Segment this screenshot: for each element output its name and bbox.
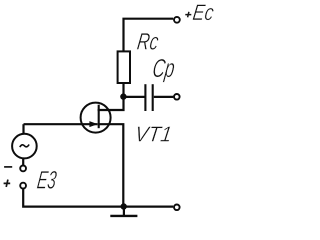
label Cp (151, 53, 177, 83)
node: drain junction dot (120, 93, 126, 99)
node: bottom junction dot (121, 203, 127, 209)
resistor Rc (118, 51, 130, 83)
transistor VT1 body circle (81, 103, 111, 133)
wire: Rc bottom to drain node (122, 83, 124, 97)
ground stub (123, 207, 125, 215)
ground bar (110, 215, 137, 217)
label +Ec (185, 0, 216, 25)
wire: gate lead from left corner to VT1 (24, 123, 98, 125)
svg-text:Ec: Ec (191, 0, 216, 25)
terminal: E3 plus (20, 183, 26, 189)
source E3 sine tilde (20, 145, 29, 148)
transistor VT1 channel line (98, 105, 100, 129)
wire: +Ec top rail with corner down to Rc (124, 19, 174, 52)
wire: left riser down to source E3 (22, 124, 24, 134)
terminal: bottom output (174, 205, 180, 211)
source E3 circle (12, 134, 37, 159)
label minus (4, 166, 12, 168)
wire: E3 bottom lead to minus terminal (22, 158, 24, 165)
transistor VT1 gate arrow (89, 121, 97, 127)
svg-text:E3: E3 (35, 167, 58, 195)
wire: drain node to capacitor Cp (123, 96, 144, 98)
label E3 (35, 167, 58, 195)
wire: drain lead from node down and left into VT1 (98, 96, 124, 111)
svg-text:Rc: Rc (135, 28, 160, 55)
wire: Cp to output terminal (154, 96, 174, 98)
terminal: Cp output (174, 94, 180, 100)
wire: source lead from channel right then down to bottom rail (98, 124, 123, 206)
wire: plus terminal down then bottom rail to output (23, 189, 173, 207)
terminal: E3 minus (20, 166, 26, 172)
label plus (4, 180, 11, 187)
terminal +Ec (174, 17, 180, 23)
svg-text:VT1: VT1 (133, 121, 173, 146)
label VT1 (133, 121, 173, 146)
capacitor Cp (145, 84, 152, 111)
svg-text:Cp: Cp (151, 53, 177, 83)
label Rc (135, 28, 160, 55)
